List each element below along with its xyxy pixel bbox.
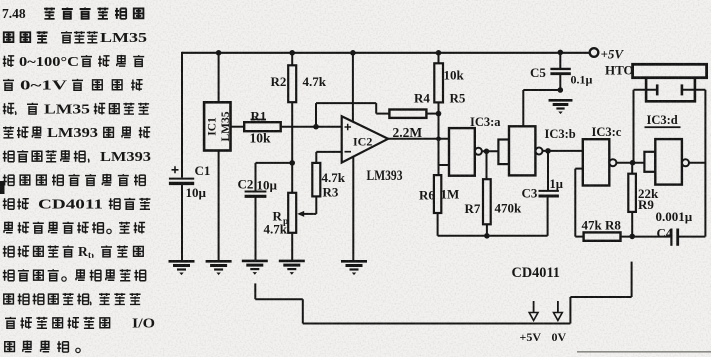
wire right edge HTD loop	[704, 90, 706, 237]
wire IC3:b top pin	[522, 90, 524, 126]
ground under C2	[242, 261, 268, 275]
wire IC1 bottom to ground	[218, 151, 220, 262]
resistor R9 22k	[631, 163, 633, 174]
ground under C5	[549, 100, 573, 114]
wire left vertical from rail to C1	[181, 52, 183, 178]
potentiometer Rp 4.7k	[291, 163, 293, 193]
wire IC3:a output	[482, 150, 499, 152]
node IC3:b out / C3	[545, 148, 551, 154]
paragraph text column	[2, 6, 155, 352]
op-amp IC2 LM393 triangle	[342, 116, 388, 162]
IC3:d input block	[644, 152, 655, 172]
IC3:b input block	[498, 140, 509, 165]
buzzer HTD bracket	[646, 78, 695, 102]
wire oscillator bottom	[438, 235, 548, 237]
capacitor C5 0.1u	[559, 52, 561, 68]
wire IC3:d output	[689, 162, 705, 164]
capacitor C4 0.001u	[670, 229, 672, 246]
resistor R2 4.7k	[291, 53, 293, 66]
wire IC2 V+ from rail	[352, 53, 354, 122]
wire IC1 top	[218, 53, 220, 103]
capacitor C1 plus sign	[172, 166, 179, 173]
node R8/R9/C4	[629, 234, 635, 240]
page edge artifact marks	[0, 181, 5, 194]
wire IC3:a lower input stub	[439, 164, 450, 166]
IC1 LM35 box	[204, 102, 230, 150]
ground under IC2	[341, 261, 367, 275]
wire +5V top rail	[182, 52, 590, 54]
node R4/R5	[436, 111, 442, 117]
node C5 bottom / gnd	[558, 87, 564, 93]
resistor R1 10k	[231, 126, 245, 128]
capacitor C1	[169, 178, 194, 180]
node output/R5 branch	[436, 136, 441, 141]
node rail/IC2 V+	[350, 50, 356, 56]
node R1/feedback junction	[313, 124, 319, 130]
NAND gate IC3:b	[509, 126, 535, 175]
capacitor C2 10u	[255, 163, 257, 191]
resistor R3 4.7k	[315, 152, 317, 163]
ground under Rp	[279, 261, 305, 275]
ground under IC1	[206, 261, 232, 275]
wire R1 to op-amp + input	[281, 126, 342, 128]
node rail/R5	[436, 50, 442, 56]
node R7 bottom	[484, 233, 490, 239]
resistor R5 10k	[438, 53, 440, 64]
NAND gate IC3:c	[583, 139, 610, 185]
wire bottom bus from ground area	[254, 283, 256, 299]
node R2/C2/Rp	[289, 160, 295, 166]
resistor R7 470k	[486, 151, 488, 179]
wire IC3:c lower input loop	[575, 168, 583, 170]
wire IC3:c output	[616, 162, 644, 164]
wire IC2 V- to ground	[352, 157, 354, 261]
Rp wiper arrow	[303, 213, 314, 215]
wire IC3:b output to IC3:c	[543, 150, 583, 152]
wire IC2 output to IC3:a	[388, 138, 449, 140]
wire feedback from + input	[315, 103, 317, 127]
resistor R6 1M	[434, 175, 441, 213]
buzzer HTD top bar	[633, 64, 707, 77]
wire HTD left to IC3:c output	[633, 90, 635, 163]
ground under C1	[169, 261, 195, 275]
wire R2 bottom to C2	[256, 162, 293, 164]
node rail/R2	[289, 50, 295, 56]
node rail/C5	[558, 50, 564, 56]
node rail/IC1	[216, 50, 222, 56]
+5V terminal circle	[590, 48, 599, 57]
NAND gate IC3:d	[655, 139, 682, 185]
resistor R8 47k	[584, 232, 621, 240]
node IC3:a out / R7	[484, 149, 490, 155]
resistor R4 2.2M	[389, 110, 426, 118]
NAND gate IC3:a	[449, 128, 475, 176]
capacitor C3 1u	[547, 151, 549, 191]
wire bus stub up toward R9 node	[631, 262, 633, 297]
wire R3 to op-amp - input	[316, 151, 341, 153]
0V arrow	[557, 301, 559, 313]
+5V arrow	[533, 301, 535, 313]
node IC3:c out / R9 / HTD	[630, 160, 636, 166]
buzzer HTD plates	[634, 89, 657, 91]
